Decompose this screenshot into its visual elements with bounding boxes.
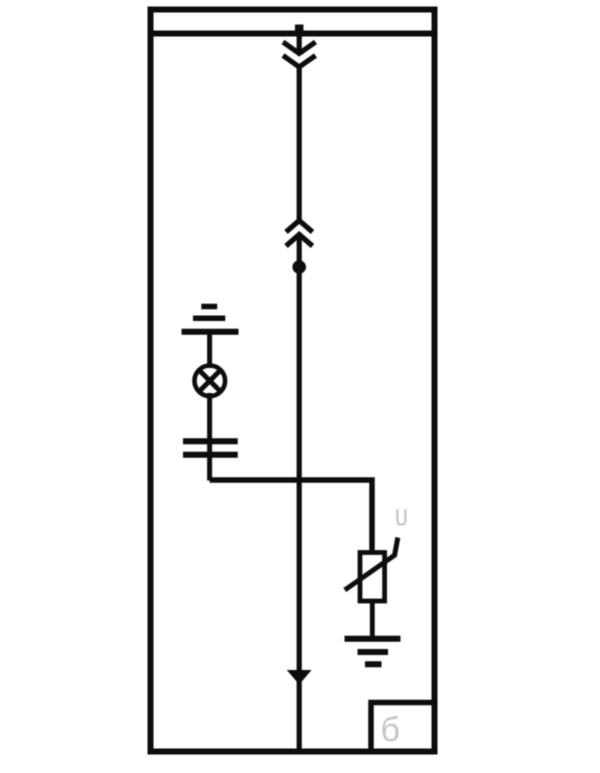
svg-text:б: б [381, 711, 400, 749]
